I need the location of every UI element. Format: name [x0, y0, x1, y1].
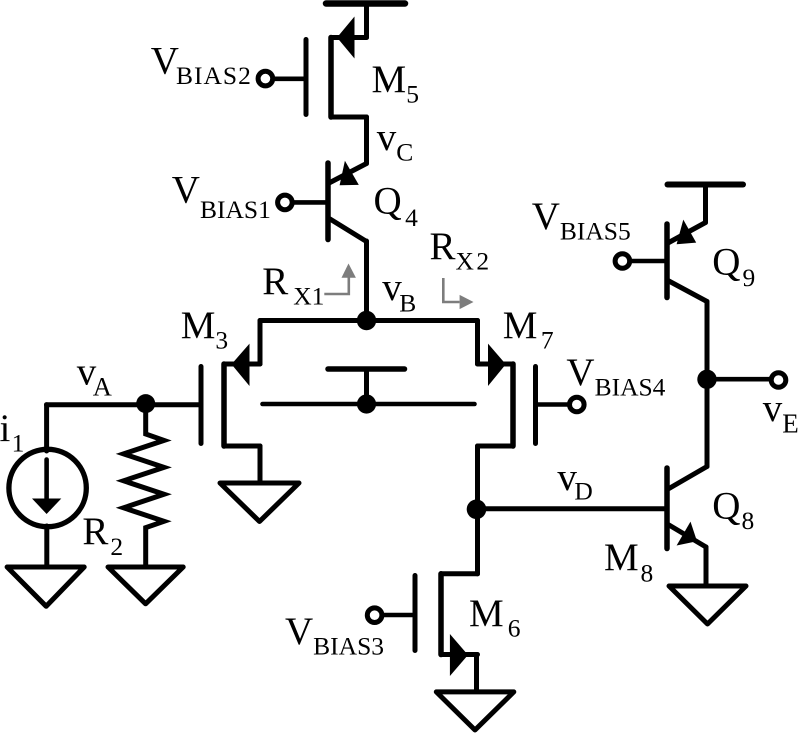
wire node B rail: [260, 318, 478, 323]
wire VBIAS2 to M5 gate: [273, 77, 307, 82]
wire node D rail: [477, 506, 668, 511]
svg-text:vE: vE: [763, 387, 799, 439]
svg-text:R2: R2: [82, 510, 123, 561]
capacitor stub: [364, 369, 369, 404]
ground M3: [220, 483, 299, 522]
resistor R2: [124, 404, 164, 567]
wire M3 source to ground: [258, 446, 263, 483]
wire Q4 collector to node B: [364, 241, 369, 321]
terminal vE: [771, 373, 786, 388]
node E junction: [697, 370, 716, 389]
terminal VBIAS1: [278, 195, 293, 210]
current source i1: [9, 449, 86, 526]
svg-text:RX1: RX1: [262, 260, 324, 311]
wire node A: [47, 402, 202, 407]
wire M7 source to node D: [475, 446, 480, 509]
wire VBIAS3 to M6 gate: [382, 613, 415, 618]
node B junction: [357, 311, 376, 330]
svg-text:VBIAS5: VBIAS5: [532, 195, 631, 246]
svg-text:VBIAS4: VBIAS4: [566, 351, 665, 402]
transistor M3: [201, 344, 260, 446]
svg-text:M8: M8: [604, 536, 653, 588]
transistor M5: [306, 17, 367, 118]
svg-text:Q8: Q8: [712, 485, 754, 536]
wire i1 bottom: [44, 526, 49, 567]
wire Q9 collector to node E: [705, 302, 710, 380]
svg-text:vA: vA: [77, 351, 112, 402]
svg-text:Q4: Q4: [374, 180, 419, 232]
wire M6 drain: [475, 509, 480, 574]
probe arrow RX2: [443, 278, 473, 309]
svg-text:M3: M3: [181, 304, 228, 355]
terminal VBIAS5: [615, 254, 630, 269]
svg-text:vC: vC: [377, 116, 414, 167]
supply rail top (M5): [326, 0, 405, 7]
wire i1 top: [44, 405, 49, 451]
wire Q8 emitter to ground: [704, 547, 709, 586]
wire VBIAS1 to Q4 base: [293, 200, 329, 205]
ground i1: [7, 567, 84, 606]
svg-text:VBIAS1: VBIAS1: [172, 169, 271, 224]
svg-text:i1: i1: [0, 407, 24, 458]
wire Q9 emitter to rail: [703, 185, 708, 223]
ground R2: [108, 567, 183, 604]
wire node E to Q8 collector: [705, 379, 710, 466]
terminal VBIAS2: [258, 71, 273, 86]
probe arrow RX1: [324, 264, 356, 295]
ground M6: [436, 692, 514, 730]
terminal VBIAS4: [570, 397, 585, 412]
transistor Q9: [667, 220, 707, 302]
junction on long line: [357, 394, 376, 413]
wire M7 drain: [475, 321, 480, 365]
svg-text:vB: vB: [382, 266, 416, 318]
wire VBIAS4 to M7 gate: [536, 402, 571, 407]
transistor Q8: [667, 467, 707, 549]
svg-text:RX2: RX2: [430, 225, 492, 276]
svg-text:VBIAS2: VBIAS2: [151, 40, 252, 91]
svg-text:M5: M5: [372, 58, 419, 109]
terminal VBIAS3: [367, 608, 382, 623]
wire long line: [263, 402, 475, 407]
wire M3 drain: [258, 321, 263, 365]
transistor M7: [478, 344, 536, 446]
capacitor top bar: [328, 366, 405, 372]
node D junction: [467, 500, 487, 520]
node A junction: [136, 394, 155, 413]
supply rail top (Q9): [668, 182, 744, 188]
svg-text:vD: vD: [557, 456, 592, 506]
wire VBIAS5 to Q9 base: [629, 259, 667, 264]
wire node E to terminal: [707, 377, 771, 382]
transistor Q4: [328, 161, 367, 242]
svg-text:Q9: Q9: [712, 240, 755, 292]
transistor M6: [415, 574, 478, 676]
wire vC : M5 drain to Q4 emitter: [364, 117, 369, 164]
svg-text:M7: M7: [503, 304, 554, 355]
wire M6 source to ground: [474, 655, 479, 692]
wire M5 source to rail: [364, 4, 369, 38]
svg-text:M6: M6: [469, 592, 520, 643]
ground Q8: [669, 586, 746, 624]
